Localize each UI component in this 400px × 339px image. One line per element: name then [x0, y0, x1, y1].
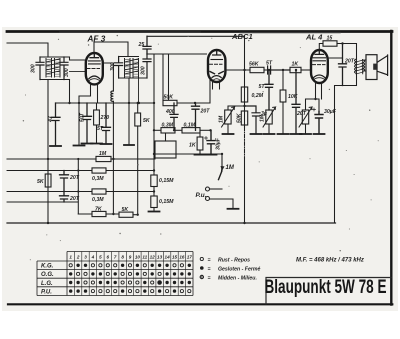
svg-text:1M: 1M [226, 165, 235, 171]
svg-text:Rust - Repos: Rust - Repos [218, 257, 250, 263]
wire T1 bottom tap to AF3 [70, 71, 86, 73]
wire T2 bottom to ground [128, 78, 130, 144]
capacitor 300 (antenna coil primary) [36, 57, 44, 80]
svg-text:1M: 1M [99, 151, 107, 157]
tube AF3 electrodes [87, 54, 100, 81]
ground (pickup) [228, 208, 239, 210]
svg-text:300: 300 [31, 64, 37, 73]
svg-text:5: 5 [99, 254, 102, 259]
svg-text:17: 17 [187, 254, 193, 259]
ground [50, 145, 61, 147]
switch contact pickup lower [206, 197, 234, 209]
resistor 0,1M (AF) [182, 128, 211, 133]
wire ladder vertical B [137, 126, 139, 215]
resistor 0,3M (on L3) [92, 189, 106, 194]
switch contact pickup upper [206, 187, 223, 191]
svg-text:11: 11 [142, 254, 147, 259]
tube ABC1 electrodes [210, 51, 224, 81]
svg-text:47: 47 [48, 115, 54, 123]
wire bus L3 [7, 191, 154, 193]
node [341, 42, 343, 44]
svg-text:20T: 20T [200, 109, 211, 115]
svg-text:300: 300 [64, 68, 70, 77]
svg-text:1M: 1M [219, 115, 225, 123]
wire AL4 anode top [319, 44, 323, 51]
svg-text:3: 3 [84, 254, 87, 259]
table header numbers [69, 254, 192, 259]
svg-text:400: 400 [165, 109, 175, 115]
node [314, 98, 316, 100]
resistor 7K [78, 211, 119, 216]
ground (divider) [149, 211, 160, 213]
capacitor 300 (antenna coil secondary) [60, 57, 68, 80]
resistor 0,3M (on L2) [92, 168, 106, 173]
capacitor 5T (tone) [265, 70, 273, 110]
wire grid return bus [56, 102, 155, 104]
wire ladder vertical A [112, 159, 114, 214]
ground [264, 133, 275, 135]
wire grid line to ABC1 [147, 53, 207, 55]
resistor 1K (decoupling) [197, 130, 203, 154]
wire coil secondary to grid [69, 80, 71, 104]
TABLE [37, 252, 193, 296]
capacitor 50T (cathode bypass) [83, 103, 92, 143]
node [194, 102, 196, 104]
resistor 5K screen feed [135, 103, 141, 126]
svg-text:16: 16 [179, 254, 185, 259]
wire bus L2 [7, 170, 154, 172]
wire cathode [79, 96, 91, 145]
detector output row [225, 69, 250, 71]
resistor 5K (bottom row) [119, 212, 138, 217]
svg-text:50K: 50K [164, 95, 175, 101]
node [268, 69, 270, 71]
svg-text:0,2M: 0,2M [252, 93, 264, 99]
table row labels [41, 264, 54, 296]
svg-text:30µF: 30µF [216, 137, 222, 150]
potentiometer 1M volume [222, 107, 235, 133]
svg-text:13: 13 [157, 254, 163, 259]
resistor 1K (on L1) [96, 156, 111, 161]
wire main vertical (detector bus) [244, 36, 246, 127]
wire long vertical AVC rail [47, 80, 49, 224]
resistor 15 [323, 41, 357, 59]
wire T1 top to AF3 grid [70, 57, 86, 60]
capacitor 20T (AVC filter 1) [60, 171, 69, 192]
resistor 50K [163, 100, 210, 105]
wire top rail [147, 35, 245, 37]
svg-text:M.F. = 468 kHz / 473 kHz: M.F. = 468 kHz / 473 kHz [296, 258, 364, 264]
wire AF3 anode to T2 [94, 42, 128, 57]
capacitor 25 (coupling) [143, 36, 151, 54]
svg-text:=: = [208, 275, 211, 281]
svg-text:K.G.: K.G. [41, 264, 54, 270]
capacitor 20T (AVC filter 2) [60, 192, 69, 203]
svg-text:AF 3: AF 3 [87, 35, 106, 44]
wire bus L1 [7, 158, 155, 160]
capacitor 300 (IF secondary) [143, 54, 151, 78]
capacitor 30uF (cathode AL4) [313, 108, 324, 133]
ground [278, 133, 289, 135]
svg-text:7: 7 [114, 254, 117, 259]
ground [124, 144, 134, 146]
svg-text:=: = [208, 257, 211, 263]
node dots divider [153, 169, 155, 192]
svg-text:3µ: 3µ [261, 111, 267, 117]
rail vertical (detector feed) [154, 54, 222, 154]
ground [314, 133, 325, 135]
potentiometer 50K [241, 111, 247, 125]
svg-text:20T: 20T [296, 111, 307, 117]
svg-text:300: 300 [141, 66, 147, 75]
wire bus L4 [7, 201, 78, 203]
svg-text:15: 15 [327, 36, 333, 42]
tube ABC1 legs [210, 80, 220, 103]
legend gesloten-ferme [200, 266, 204, 270]
svg-text:0,3M: 0,3M [162, 122, 174, 128]
capacitor 5T series [268, 66, 290, 74]
svg-text:12: 12 [150, 254, 156, 259]
svg-text:AL 4: AL 4 [305, 33, 323, 42]
ground [206, 154, 217, 156]
svg-text:4: 4 [91, 254, 95, 259]
svg-text:50K: 50K [237, 112, 243, 123]
svg-text:Midden - Milieu.: Midden - Milieu. [218, 275, 257, 281]
capacitor 300 (IF primary) [115, 57, 123, 79]
svg-text:0,15M: 0,15M [159, 178, 174, 184]
node [243, 105, 245, 107]
svg-text:30µF: 30µF [324, 109, 337, 115]
ground [101, 143, 112, 145]
resistor 5K (AVC decoupling) [45, 171, 51, 192]
wire to volume pot [228, 106, 245, 110]
node [209, 129, 211, 131]
svg-text:Gesloten - Fermé: Gesloten - Fermé [218, 266, 260, 272]
svg-text:L.G.: L.G. [41, 281, 53, 287]
transformer output [355, 59, 365, 86]
svg-text:300: 300 [110, 62, 116, 71]
tube AF3 heater legs [91, 84, 98, 103]
tube ABC1 envelope [208, 50, 225, 82]
capacitor 30uF electrolytic [205, 130, 216, 154]
wire antenna input [7, 43, 48, 57]
node [221, 153, 223, 155]
node [112, 158, 114, 160]
transformer T1 antenna coil [40, 57, 70, 80]
potentiometer bias AL4 [299, 107, 312, 133]
ground [82, 143, 93, 145]
svg-text:9: 9 [129, 254, 132, 259]
capacitor 400 [170, 103, 178, 130]
node [137, 214, 139, 216]
node dots on grid bus [68, 102, 140, 104]
node dots rail [77, 158, 79, 193]
resistor 1K (AL4 grid stopper) [290, 67, 310, 72]
tube AL4 envelope [311, 50, 328, 83]
wire to speaker [365, 60, 366, 71]
svg-text:5T: 5T [259, 84, 266, 90]
svg-text:0,15M: 0,15M [159, 199, 174, 205]
svg-text:ABC1: ABC1 [231, 32, 253, 41]
resistor 56K [250, 67, 268, 72]
resistor 270 (cathode bias) [94, 103, 100, 143]
switch P.U. arm [219, 154, 225, 180]
tube AF3 envelope [86, 53, 103, 84]
potentiometer 1M tone [263, 107, 276, 133]
ground [91, 143, 102, 145]
resistor 0,3M (AF) [154, 128, 182, 133]
node dots rail154 [153, 102, 155, 155]
svg-text:56K: 56K [249, 62, 260, 68]
resistor 0,15M (divider lower) [151, 187, 157, 212]
legend midden-milieu [200, 275, 204, 279]
node [243, 69, 245, 71]
svg-text:15: 15 [172, 254, 178, 259]
svg-text:270: 270 [100, 115, 110, 121]
svg-text:P.u.: P.u. [196, 192, 207, 199]
tube AL4 legs [316, 83, 322, 100]
svg-text:20T: 20T [69, 175, 80, 181]
legend rest-repos [200, 257, 261, 281]
resistor 10K [280, 70, 286, 133]
svg-text:8: 8 [121, 254, 124, 259]
svg-text:0,3M: 0,3M [92, 176, 104, 182]
ground [251, 133, 262, 135]
svg-text:2: 2 [76, 254, 80, 259]
table circles [69, 264, 191, 293]
value labels [31, 36, 355, 214]
svg-text:14: 14 [165, 254, 171, 259]
wire T2 secondary tap [138, 76, 140, 103]
node [243, 222, 245, 224]
tube AL4 electrodes [313, 51, 326, 80]
svg-text:20T: 20T [69, 196, 80, 202]
svg-text:0,3M: 0,3M [92, 197, 104, 203]
oscillator coil box [155, 133, 176, 158]
svg-text:20T: 20T [344, 59, 355, 65]
ground [300, 133, 311, 135]
wire oscillator verticals [163, 54, 169, 100]
speaker [366, 55, 388, 80]
svg-text:0,1M: 0,1M [184, 122, 196, 128]
capacitor 20T (diode load) [192, 103, 200, 130]
wire screen lead with RF choke [104, 63, 113, 159]
capacitor 5T [102, 103, 111, 143]
wire switch rail [77, 159, 79, 214]
ground [223, 133, 234, 135]
wire AL4 cathode [306, 99, 320, 112]
ground (cathode) [74, 145, 85, 147]
ground [291, 133, 302, 135]
svg-text:10K: 10K [288, 94, 299, 100]
svg-text:Blaupunkt 5W 78 E: Blaupunkt 5W 78 E [265, 276, 387, 298]
svg-text:O.G.: O.G. [41, 272, 54, 278]
ground [195, 154, 206, 156]
svg-text:50T: 50T [80, 112, 86, 122]
wire screen/B+ down [328, 58, 356, 223]
svg-text:5T: 5T [97, 126, 104, 132]
node junction [47, 158, 49, 160]
svg-text:10: 10 [135, 254, 141, 259]
capacitor 3uF [245, 106, 261, 133]
resistor 0,1M (on bus) [241, 87, 247, 102]
capacitor 47 (AVC) [51, 103, 60, 145]
svg-text:25: 25 [138, 42, 145, 48]
node [295, 69, 297, 71]
node [282, 69, 284, 71]
svg-text:P.U.: P.U. [41, 289, 52, 295]
transformer T2 IF [119, 57, 147, 79]
capacitor 20T (across primary) [339, 44, 347, 86]
wire bus L5 ground return [7, 222, 336, 224]
capacitor 20T (AL4 grid) [292, 70, 300, 133]
svg-text:1: 1 [69, 254, 72, 259]
svg-text:=: = [208, 266, 211, 272]
resistor 0,15M (divider upper) [151, 154, 157, 187]
svg-text:5T: 5T [266, 61, 273, 67]
svg-text:6: 6 [107, 254, 110, 259]
